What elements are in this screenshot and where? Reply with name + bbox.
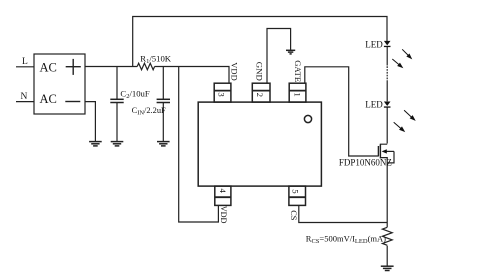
svg-text:CS: CS (289, 210, 298, 221)
svg-text:LED: LED (365, 40, 383, 50)
svg-text:3: 3 (217, 92, 227, 97)
svg-text:4: 4 (218, 188, 228, 193)
svg-text:C2/10uF: C2/10uF (120, 88, 149, 100)
svg-text:2: 2 (255, 93, 265, 97)
svg-text:AC: AC (40, 60, 57, 74)
svg-text:VDD: VDD (229, 62, 239, 80)
svg-text:L: L (22, 57, 28, 67)
svg-text:GND: GND (254, 62, 264, 81)
svg-text:AC: AC (40, 92, 57, 106)
svg-text:N: N (21, 92, 28, 102)
svg-text:RCS=500mV/ILED(mA): RCS=500mV/ILED(mA) (306, 233, 386, 245)
svg-text:5: 5 (291, 189, 301, 194)
svg-text:1: 1 (293, 92, 303, 96)
svg-text:LED: LED (365, 100, 383, 110)
svg-text:FDP10N60NZ: FDP10N60NZ (339, 158, 392, 168)
svg-text:VDD: VDD (219, 206, 228, 224)
svg-text:CIN/2.2uF: CIN/2.2uF (132, 106, 166, 117)
svg-text:R1/510K: R1/510K (140, 53, 171, 65)
svg-text:GATE: GATE (293, 60, 303, 82)
